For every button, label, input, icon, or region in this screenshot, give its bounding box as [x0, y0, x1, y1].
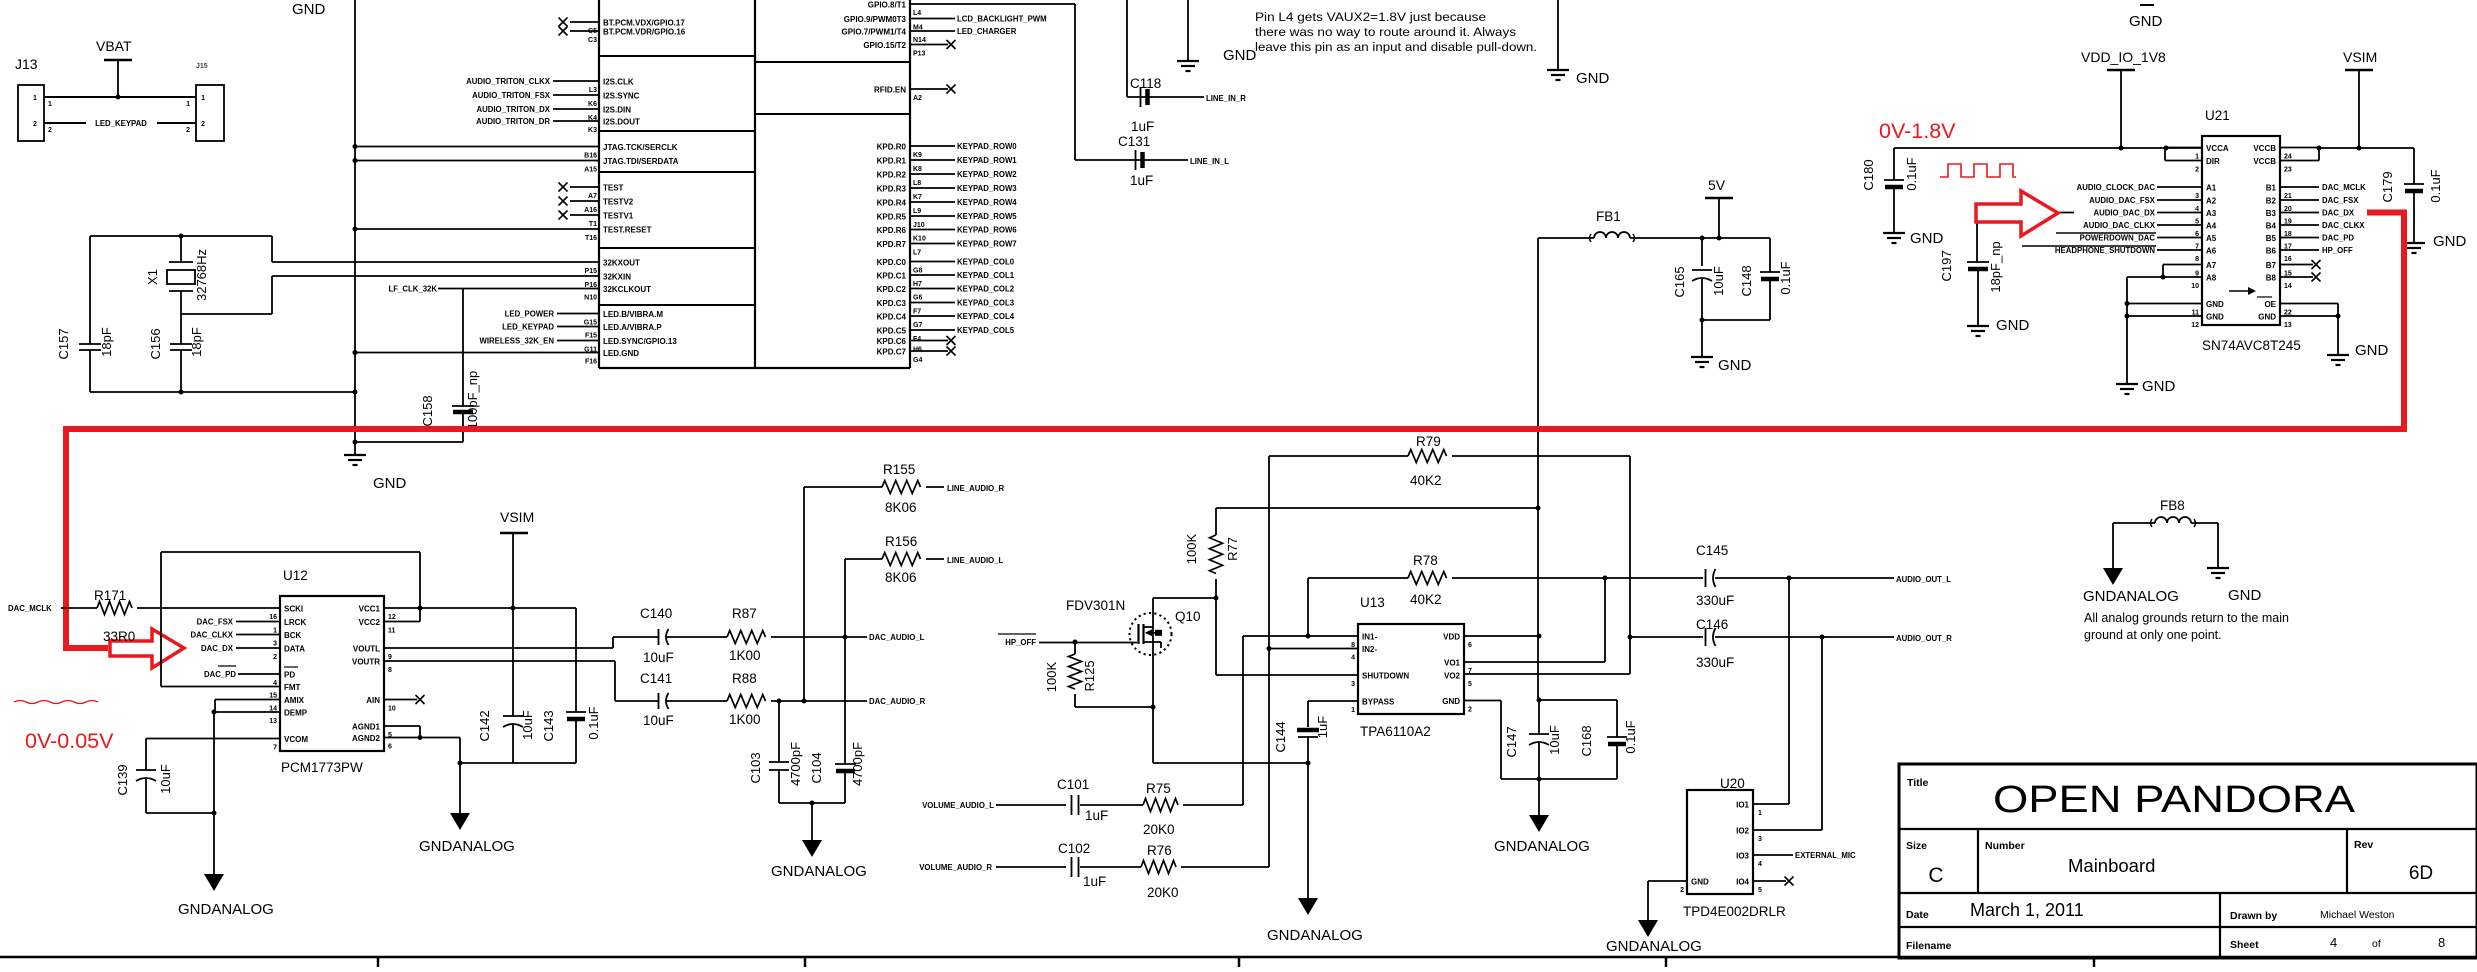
svg-text:DAC_FSX: DAC_FSX: [2322, 196, 2359, 205]
svg-text:GND: GND: [1576, 70, 1610, 87]
svg-text:1uF: 1uF: [1131, 119, 1154, 134]
svg-text:HP_OFF: HP_OFF: [1005, 638, 1036, 647]
svg-text:C3: C3: [588, 37, 597, 44]
svg-text:1: 1: [33, 95, 37, 102]
svg-text:1: 1: [2195, 154, 2199, 161]
svg-text:KPD.C0: KPD.C0: [877, 258, 907, 267]
svg-text:12: 12: [388, 614, 396, 621]
svg-text:40K2: 40K2: [1410, 473, 1442, 488]
svg-text:Sheet: Sheet: [2230, 939, 2259, 951]
svg-text:23: 23: [2284, 167, 2292, 174]
svg-text:C145: C145: [1696, 543, 1728, 558]
svg-text:7: 7: [273, 745, 277, 752]
svg-text:2: 2: [1468, 707, 1472, 714]
svg-text:IN1-: IN1-: [1362, 633, 1377, 642]
svg-text:2: 2: [186, 127, 190, 134]
svg-text:B2: B2: [2266, 197, 2277, 206]
svg-text:18pF: 18pF: [189, 327, 204, 357]
svg-text:H6: H6: [913, 347, 922, 354]
svg-text:FB8: FB8: [2160, 498, 2185, 513]
svg-text:DIR: DIR: [2206, 157, 2220, 166]
svg-text:A1: A1: [2206, 184, 2217, 193]
svg-text:I2S.DOUT: I2S.DOUT: [603, 118, 640, 127]
svg-text:I2S.SYNC: I2S.SYNC: [603, 92, 640, 101]
svg-text:VCCB: VCCB: [2253, 144, 2276, 153]
svg-text:SN74AVC8T245: SN74AVC8T245: [2202, 338, 2301, 353]
svg-text:POWERDOWN_DAC: POWERDOWN_DAC: [2080, 234, 2156, 243]
svg-text:IN2-: IN2-: [1362, 645, 1377, 654]
svg-text:KPD.R4: KPD.R4: [877, 199, 907, 208]
svg-text:GNDANALOG: GNDANALOG: [178, 901, 274, 918]
svg-text:1: 1: [48, 101, 52, 108]
svg-text:A7: A7: [2206, 261, 2217, 270]
svg-text:B6: B6: [2266, 247, 2277, 256]
svg-text:DAC_CLKX: DAC_CLKX: [2322, 221, 2365, 230]
svg-text:G8: G8: [913, 268, 922, 275]
svg-text:C180: C180: [1861, 159, 1876, 190]
svg-text:GNDANALOG: GNDANALOG: [1494, 838, 1590, 855]
svg-text:10uF: 10uF: [1547, 725, 1562, 755]
svg-text:GND: GND: [1910, 230, 1944, 247]
svg-text:11: 11: [388, 628, 396, 635]
svg-text:4700pF: 4700pF: [788, 742, 803, 786]
svg-text:K3: K3: [588, 127, 597, 134]
svg-text:LED.GND: LED.GND: [603, 349, 639, 358]
svg-text:C118: C118: [1130, 76, 1161, 91]
svg-text:12: 12: [2191, 322, 2199, 329]
svg-text:there was no way to route arou: there was no way to route around it. Alw…: [1255, 25, 1516, 39]
svg-text:C144: C144: [1273, 721, 1288, 752]
svg-text:of: of: [2372, 938, 2381, 950]
svg-text:I2S.CLK: I2S.CLK: [603, 78, 634, 87]
svg-text:DAC_AUDIO_L: DAC_AUDIO_L: [869, 633, 925, 642]
svg-text:VSIM: VSIM: [500, 509, 534, 525]
svg-text:4700pF: 4700pF: [850, 742, 865, 786]
svg-text:10uF: 10uF: [158, 764, 173, 794]
svg-text:J10: J10: [913, 222, 925, 229]
svg-text:C179: C179: [2380, 171, 2395, 202]
svg-text:1K00: 1K00: [729, 712, 761, 727]
svg-text:KPD.C4: KPD.C4: [877, 313, 907, 322]
svg-text:GNDANALOG: GNDANALOG: [771, 863, 867, 880]
svg-text:0V-1.8V: 0V-1.8V: [1879, 119, 1956, 143]
svg-text:LED_CHARGER: LED_CHARGER: [957, 27, 1017, 36]
svg-text:LINE_AUDIO_L: LINE_AUDIO_L: [947, 556, 1004, 565]
svg-text:C104: C104: [809, 752, 824, 783]
svg-text:Michael Weston: Michael Weston: [2320, 909, 2395, 921]
svg-text:40K2: 40K2: [1410, 592, 1442, 607]
svg-text:SCKI: SCKI: [284, 605, 303, 614]
svg-text:GND: GND: [373, 475, 407, 492]
svg-text:C143: C143: [541, 710, 556, 741]
svg-text:KPD.R0: KPD.R0: [877, 143, 907, 152]
svg-text:C141: C141: [640, 671, 672, 686]
svg-text:R171: R171: [94, 588, 126, 603]
svg-text:KEYPAD_ROW6: KEYPAD_ROW6: [957, 226, 1017, 235]
svg-text:GND: GND: [2433, 233, 2467, 250]
svg-text:15: 15: [269, 693, 277, 700]
svg-text:N10: N10: [584, 295, 597, 302]
svg-text:AUDIO_DAC_DX: AUDIO_DAC_DX: [2093, 209, 2155, 218]
svg-text:G15: G15: [584, 320, 597, 327]
svg-text:GNDANALOG: GNDANALOG: [2083, 588, 2179, 605]
svg-text:AUDIO_TRITON_CLKX: AUDIO_TRITON_CLKX: [466, 77, 551, 86]
svg-text:13: 13: [2284, 322, 2292, 329]
svg-text:A6: A6: [2206, 247, 2217, 256]
svg-text:C103: C103: [748, 752, 763, 783]
svg-text:LED_KEYPAD: LED_KEYPAD: [502, 323, 554, 332]
svg-text:C139: C139: [115, 764, 130, 795]
svg-text:C131: C131: [1118, 134, 1150, 149]
svg-text:C146: C146: [1696, 617, 1728, 632]
svg-text:KEYPAD_ROW3: KEYPAD_ROW3: [957, 184, 1017, 193]
svg-text:0.1uF: 0.1uF: [586, 706, 601, 739]
svg-text:H7: H7: [913, 281, 922, 288]
svg-text:DAC_DX: DAC_DX: [201, 644, 234, 653]
svg-text:TEST.RESET: TEST.RESET: [603, 226, 652, 235]
svg-text:TPA6110A2: TPA6110A2: [1360, 724, 1431, 739]
svg-text:IO2: IO2: [1736, 827, 1749, 836]
svg-text:GND: GND: [2129, 13, 2163, 30]
svg-text:2: 2: [2195, 167, 2199, 174]
svg-text:DAC_MCLK: DAC_MCLK: [8, 604, 52, 613]
svg-text:LCD_BACKLIGHT_PWM: LCD_BACKLIGHT_PWM: [957, 15, 1047, 24]
svg-text:C157: C157: [56, 328, 71, 359]
svg-text:R75: R75: [1146, 781, 1171, 796]
svg-text:LED.B/VIBRA.M: LED.B/VIBRA.M: [603, 310, 663, 319]
svg-text:TESTV2: TESTV2: [603, 198, 634, 207]
svg-text:AUDIO_OUT_L: AUDIO_OUT_L: [1896, 575, 1951, 584]
svg-text:10uF: 10uF: [1711, 266, 1726, 296]
svg-text:TPD4E002DRLR: TPD4E002DRLR: [1683, 904, 1786, 919]
svg-text:GNDANALOG: GNDANALOG: [1606, 938, 1702, 955]
svg-text:3: 3: [2195, 193, 2199, 200]
svg-text:JTAG.TDI/SERDATA: JTAG.TDI/SERDATA: [603, 157, 679, 166]
svg-text:F4: F4: [913, 336, 921, 343]
svg-text:AUDIO_DAC_FSX: AUDIO_DAC_FSX: [2089, 196, 2156, 205]
svg-text:F7: F7: [913, 309, 921, 316]
svg-text:leave this pin as an input and: leave this pin as an input and disable p…: [1255, 40, 1537, 54]
svg-text:8K06: 8K06: [885, 570, 917, 585]
svg-text:AUDIO_TRITON_FSX: AUDIO_TRITON_FSX: [472, 91, 551, 100]
svg-text:1uF: 1uF: [1130, 173, 1153, 188]
svg-text:DAC_PD: DAC_PD: [204, 670, 236, 679]
svg-text:Filename: Filename: [1906, 940, 1952, 952]
svg-text:5V: 5V: [1708, 177, 1726, 193]
svg-text:All analog grounds return to t: All analog grounds return to the main: [2084, 611, 2289, 625]
svg-text:32768Hz: 32768Hz: [194, 249, 209, 301]
svg-text:LF_CLK_32K: LF_CLK_32K: [388, 285, 437, 294]
svg-text:DAC_PD: DAC_PD: [2322, 234, 2354, 243]
svg-text:3: 3: [273, 641, 277, 648]
svg-text:KPD.R3: KPD.R3: [877, 185, 907, 194]
svg-text:KPD.C2: KPD.C2: [877, 285, 907, 294]
svg-text:HEADPHONE_SHUTDOWN: HEADPHONE_SHUTDOWN: [2055, 246, 2155, 255]
svg-text:J13: J13: [15, 56, 38, 72]
svg-text:K8: K8: [913, 166, 922, 173]
svg-text:100pF_np: 100pF_np: [465, 371, 480, 430]
svg-text:C197: C197: [1939, 250, 1954, 281]
svg-text:KPD.R2: KPD.R2: [877, 171, 907, 180]
svg-text:KPD.R5: KPD.R5: [877, 213, 907, 222]
svg-text:VDD_IO_1V8: VDD_IO_1V8: [2081, 49, 2166, 65]
svg-text:G6: G6: [913, 295, 922, 302]
svg-text:PD: PD: [284, 671, 295, 680]
svg-text:16: 16: [269, 614, 277, 621]
svg-text:R88: R88: [732, 671, 757, 686]
svg-text:K7: K7: [913, 194, 922, 201]
svg-text:L4: L4: [913, 10, 921, 17]
svg-text:KPD.R1: KPD.R1: [877, 157, 907, 166]
svg-text:KEYPAD_ROW2: KEYPAD_ROW2: [957, 170, 1017, 179]
svg-text:AUDIO_TRITON_DR: AUDIO_TRITON_DR: [476, 117, 550, 126]
svg-text:2: 2: [33, 121, 37, 128]
svg-text:B4: B4: [2266, 222, 2277, 231]
svg-text:GND: GND: [2355, 342, 2389, 359]
svg-text:KEYPAD_COL3: KEYPAD_COL3: [957, 299, 1015, 308]
svg-text:I2S.DIN: I2S.DIN: [603, 106, 631, 115]
svg-text:R156: R156: [885, 534, 917, 549]
svg-text:R87: R87: [732, 606, 757, 621]
svg-text:KEYPAD_ROW0: KEYPAD_ROW0: [957, 142, 1017, 151]
svg-text:5: 5: [1758, 887, 1762, 894]
svg-text:Mainboard: Mainboard: [2068, 855, 2155, 876]
svg-text:GPIO.9/PWM0T3: GPIO.9/PWM0T3: [844, 15, 907, 24]
svg-text:GND: GND: [2206, 313, 2224, 322]
svg-text:13: 13: [269, 718, 277, 725]
svg-text:LINE_IN_R: LINE_IN_R: [1206, 94, 1246, 103]
svg-text:F16: F16: [585, 359, 597, 366]
svg-text:330uF: 330uF: [1696, 655, 1734, 670]
svg-text:U12: U12: [283, 568, 308, 583]
svg-text:Number: Number: [1985, 840, 2025, 852]
svg-text:VDD: VDD: [1443, 633, 1460, 642]
svg-text:24: 24: [2284, 154, 2292, 161]
svg-text:P13: P13: [913, 51, 926, 58]
svg-text:6: 6: [1468, 642, 1472, 649]
svg-text:C168: C168: [1579, 725, 1594, 756]
svg-text:KEYPAD_ROW1: KEYPAD_ROW1: [957, 156, 1017, 165]
svg-text:8K06: 8K06: [885, 500, 917, 515]
svg-text:DAC_AUDIO_R: DAC_AUDIO_R: [869, 697, 926, 706]
svg-text:FMT: FMT: [284, 683, 301, 692]
svg-text:C102: C102: [1058, 841, 1090, 856]
svg-text:LINE_IN_L: LINE_IN_L: [1190, 157, 1229, 166]
svg-text:AGND2: AGND2: [352, 734, 381, 743]
svg-text:G4: G4: [913, 357, 922, 364]
svg-text:GPIO.7/PWM1/T4: GPIO.7/PWM1/T4: [842, 28, 907, 37]
svg-text:G7: G7: [913, 322, 922, 329]
svg-text:1uF: 1uF: [1083, 874, 1106, 889]
svg-text:AIN: AIN: [366, 696, 380, 705]
svg-text:KPD.C5: KPD.C5: [877, 327, 907, 336]
svg-text:ground at only one point.: ground at only one point.: [2084, 628, 2222, 642]
svg-text:AMIX: AMIX: [284, 696, 305, 705]
svg-text:U21: U21: [2205, 108, 2230, 123]
svg-text:10uF: 10uF: [643, 650, 674, 665]
svg-text:VOUTR: VOUTR: [352, 658, 380, 667]
svg-text:KPD.C3: KPD.C3: [877, 299, 907, 308]
svg-text:N14: N14: [913, 37, 926, 44]
svg-text:9: 9: [388, 654, 392, 661]
svg-text:KEYPAD_COL5: KEYPAD_COL5: [957, 326, 1015, 335]
svg-text:32KXOUT: 32KXOUT: [603, 259, 640, 268]
svg-text:8: 8: [388, 667, 392, 674]
svg-text:GND: GND: [2142, 378, 2176, 395]
svg-text:R155: R155: [883, 462, 915, 477]
svg-text:32KXIN: 32KXIN: [603, 273, 631, 282]
svg-text:18pF_np: 18pF_np: [1988, 241, 2003, 292]
svg-text:4: 4: [1758, 861, 1762, 868]
svg-text:U20: U20: [1720, 776, 1745, 791]
svg-text:R77: R77: [1225, 537, 1240, 561]
svg-text:3: 3: [1351, 681, 1355, 688]
svg-text:TEST: TEST: [603, 184, 624, 193]
svg-text:GND: GND: [1996, 317, 2030, 334]
svg-text:4: 4: [2330, 935, 2337, 950]
svg-text:B3: B3: [2266, 209, 2277, 218]
svg-text:KPD.C6: KPD.C6: [877, 337, 907, 346]
svg-text:LRCK: LRCK: [284, 618, 306, 627]
svg-text:VOLUME_AUDIO_L: VOLUME_AUDIO_L: [922, 801, 994, 810]
svg-text:GND: GND: [1442, 697, 1460, 706]
svg-text:VCC1: VCC1: [359, 605, 381, 614]
svg-text:33R0: 33R0: [103, 629, 135, 644]
svg-text:C: C: [1928, 864, 1943, 887]
svg-text:AUDIO_CLOCK_DAC: AUDIO_CLOCK_DAC: [2077, 183, 2156, 192]
svg-text:DAC_MCLK: DAC_MCLK: [2322, 183, 2366, 192]
svg-text:14: 14: [2284, 283, 2292, 290]
svg-text:0V-0.05V: 0V-0.05V: [25, 729, 114, 753]
svg-text:VCC2: VCC2: [359, 618, 381, 627]
svg-text:KPD.R7: KPD.R7: [877, 240, 907, 249]
svg-text:2: 2: [48, 127, 52, 134]
svg-text:100K: 100K: [1184, 533, 1199, 564]
svg-text:A2: A2: [2206, 197, 2217, 206]
svg-text:Pin L4 gets VAUX2=1.8V just be: Pin L4 gets VAUX2=1.8V just because: [1255, 10, 1486, 24]
svg-text:GPIO.8/T1: GPIO.8/T1: [868, 1, 907, 10]
svg-text:L7: L7: [913, 250, 921, 257]
svg-text:KEYPAD_COL0: KEYPAD_COL0: [957, 258, 1015, 267]
svg-text:R78: R78: [1413, 553, 1438, 568]
svg-text:L8: L8: [913, 180, 921, 187]
svg-text:LED.A/VIBRA.P: LED.A/VIBRA.P: [603, 323, 662, 332]
svg-text:C148: C148: [1739, 265, 1754, 296]
svg-text:A4: A4: [2206, 222, 2217, 231]
svg-text:JTAG.TCK/SERCLK: JTAG.TCK/SERCLK: [603, 143, 678, 152]
svg-text:DEMP: DEMP: [284, 709, 308, 718]
svg-text:BYPASS: BYPASS: [1362, 698, 1395, 707]
svg-text:18pF: 18pF: [99, 327, 114, 357]
svg-text:1: 1: [186, 101, 190, 108]
svg-text:Q10: Q10: [1175, 609, 1201, 624]
svg-text:21: 21: [2284, 193, 2292, 200]
svg-text:T1: T1: [589, 221, 597, 228]
svg-text:C165: C165: [1672, 266, 1687, 297]
svg-text:SHUTDOWN: SHUTDOWN: [1362, 672, 1409, 681]
svg-text:A3: A3: [2206, 209, 2217, 218]
svg-text:L3: L3: [589, 87, 597, 94]
svg-text:8: 8: [2195, 256, 2199, 263]
svg-text:A7: A7: [588, 193, 597, 200]
svg-text:L9: L9: [913, 208, 921, 215]
svg-text:GND: GND: [2258, 313, 2276, 322]
svg-text:A8: A8: [2206, 274, 2217, 283]
svg-text:VO1: VO1: [1444, 659, 1461, 668]
svg-text:2: 2: [201, 121, 205, 128]
svg-text:KEYPAD_ROW7: KEYPAD_ROW7: [957, 240, 1017, 249]
svg-text:B7: B7: [2266, 261, 2277, 270]
svg-text:U13: U13: [1360, 595, 1385, 610]
svg-text:VO2: VO2: [1444, 672, 1461, 681]
svg-text:R76: R76: [1147, 843, 1172, 858]
svg-text:EXTERNAL_MIC: EXTERNAL_MIC: [1795, 851, 1856, 860]
svg-text:10: 10: [2191, 283, 2199, 290]
svg-text:LED_KEYPAD: LED_KEYPAD: [95, 119, 147, 128]
svg-text:5: 5: [1468, 681, 1472, 688]
svg-text:AUDIO_DAC_CLKX: AUDIO_DAC_CLKX: [2083, 221, 2156, 230]
svg-text:KEYPAD_ROW4: KEYPAD_ROW4: [957, 198, 1017, 207]
svg-text:C147: C147: [1504, 726, 1519, 757]
svg-text:GND: GND: [292, 1, 326, 18]
svg-text:32KCLKOUT: 32KCLKOUT: [603, 285, 651, 294]
svg-text:FB1: FB1: [1596, 209, 1621, 224]
svg-text:GND: GND: [2228, 587, 2262, 604]
svg-text:1uF: 1uF: [1085, 808, 1108, 823]
svg-text:BT.PCM.VDX/GPIO.17: BT.PCM.VDX/GPIO.17: [603, 19, 685, 28]
svg-text:VOUTL: VOUTL: [353, 645, 380, 654]
svg-text:C140: C140: [640, 606, 672, 621]
svg-text:AUDIO_TRITON_DX: AUDIO_TRITON_DX: [476, 105, 550, 114]
svg-text:PCM1773PW: PCM1773PW: [281, 760, 363, 775]
svg-text:0.1uF: 0.1uF: [1778, 261, 1793, 294]
svg-text:X1: X1: [145, 269, 160, 285]
svg-text:16: 16: [2284, 256, 2292, 263]
svg-text:K10: K10: [913, 236, 926, 243]
svg-text:10uF: 10uF: [520, 710, 535, 740]
svg-text:K9: K9: [913, 152, 922, 159]
svg-text:DAC_FSX: DAC_FSX: [197, 618, 234, 627]
svg-text:KPD.R6: KPD.R6: [877, 226, 907, 235]
svg-text:P15: P15: [585, 268, 598, 275]
svg-text:0.1uF: 0.1uF: [1623, 720, 1638, 753]
svg-text:BCK: BCK: [284, 631, 302, 640]
svg-text:R79: R79: [1416, 434, 1441, 449]
svg-text:Rev: Rev: [2354, 839, 2373, 851]
svg-text:GND: GND: [1718, 357, 1752, 374]
svg-text:0.1uF: 0.1uF: [2428, 169, 2443, 202]
svg-text:B5: B5: [2266, 234, 2277, 243]
svg-text:1: 1: [1351, 707, 1355, 714]
svg-text:C142: C142: [477, 710, 492, 741]
svg-text:10: 10: [388, 706, 396, 713]
svg-text:A16: A16: [584, 207, 597, 214]
svg-text:HP_OFF: HP_OFF: [2322, 246, 2353, 255]
svg-text:AUDIO_OUT_R: AUDIO_OUT_R: [1896, 634, 1952, 643]
svg-text:GNDANALOG: GNDANALOG: [1267, 927, 1363, 944]
svg-text:2: 2: [1680, 887, 1684, 894]
svg-text:VBAT: VBAT: [96, 38, 132, 54]
svg-text:AGND1: AGND1: [352, 723, 381, 732]
svg-text:A2: A2: [913, 95, 922, 102]
svg-text:B8: B8: [2266, 274, 2277, 283]
svg-text:R125: R125: [1082, 660, 1097, 691]
svg-text:OE: OE: [2264, 300, 2276, 309]
svg-text:VOLUME_AUDIO_R: VOLUME_AUDIO_R: [919, 863, 992, 872]
svg-text:KEYPAD_COL4: KEYPAD_COL4: [957, 312, 1015, 321]
svg-text:KPD.C7: KPD.C7: [877, 348, 907, 357]
svg-text:8: 8: [2438, 935, 2445, 950]
